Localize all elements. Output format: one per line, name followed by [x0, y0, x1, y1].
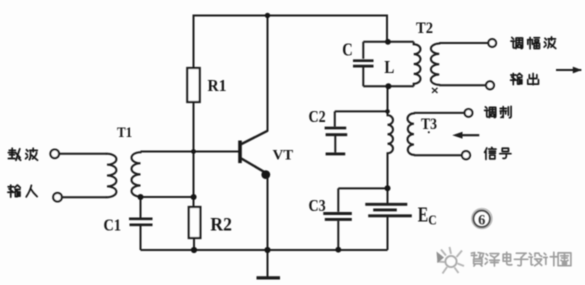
svg-text:T3: T3	[421, 116, 437, 133]
svg-text:VT: VT	[273, 147, 294, 163]
svg-text:T2: T2	[416, 20, 433, 37]
svg-text:C3: C3	[309, 196, 326, 215]
svg-text:C: C	[342, 40, 353, 60]
svg-text:E: E	[418, 203, 429, 227]
svg-text:C: C	[428, 213, 437, 228]
svg-text:R2: R2	[210, 214, 232, 235]
svg-text:T1: T1	[117, 125, 132, 141]
svg-text:C1: C1	[104, 216, 122, 235]
svg-text:6: 6	[478, 212, 485, 228]
svg-text:C2: C2	[309, 107, 326, 126]
svg-text:R1: R1	[208, 76, 227, 95]
svg-text:L: L	[384, 57, 394, 77]
